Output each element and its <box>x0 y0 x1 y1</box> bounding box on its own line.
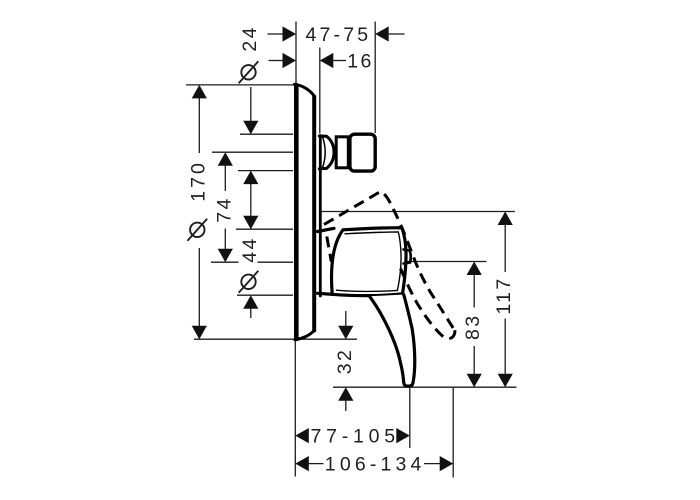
wire extension line top knob-end x375 <box>374 22 376 134</box>
svg-text:32: 32 <box>334 348 356 375</box>
wire extension line left y170 knob bottom <box>238 170 293 172</box>
wire baseline y387 lever bottom <box>333 386 517 388</box>
arrowhead 16 right (points left at x320) <box>320 53 334 68</box>
wire extension line left y295 sleeve bottom <box>237 294 293 296</box>
svg-text:47-75: 47-75 <box>306 24 371 46</box>
dim 16 tails <box>269 60 283 62</box>
handle neck bottom edge <box>318 293 334 294</box>
arrowhead 117 top (points up at y211.5) <box>498 212 513 226</box>
dim 32 tails <box>345 311 347 327</box>
arrowhead 74 bottom (points down at y262) <box>218 249 233 263</box>
arrowhead D170 top (points up at y85) <box>192 85 207 99</box>
svg-text:77-105: 77-105 <box>311 426 398 448</box>
wire extension line left y262 handle axis part2 <box>258 261 294 263</box>
escutcheon plate front edge <box>312 97 316 331</box>
wire extension line left y229 sleeve top <box>236 228 293 230</box>
dashed handle raised position lower outline with tip curl <box>401 269 455 339</box>
svg-text:74: 74 <box>213 196 235 223</box>
label D170 diameter symbol <box>188 219 208 241</box>
arrowhead D170 bottom (points down at y339) <box>192 326 207 340</box>
wire extension line bottom right x453 <box>452 388 454 478</box>
wire extension line bottom left x295 <box>294 341 296 477</box>
arrowhead 47-75 right (points left at x375) <box>375 26 389 41</box>
arrowhead 83 bottom (points down at y387) <box>467 374 482 388</box>
handle body inner detail line <box>337 232 402 291</box>
dim 117 line segments <box>504 224 506 272</box>
wire extension line bottom x410 lever tip <box>409 388 411 448</box>
wire extension line left y134 knob top <box>240 133 293 135</box>
knob neck spool outline <box>319 136 334 169</box>
arrowhead D24 top (points down at y134) <box>243 121 258 135</box>
arrowhead 74 top (points up at y152) <box>218 152 233 166</box>
arrowhead 16 left (points right at x296) <box>283 53 297 68</box>
svg-text:117: 117 <box>493 276 515 314</box>
arrowhead D24 bottom (points up at y170.6) <box>243 171 258 185</box>
dim 74 line segments <box>224 165 226 192</box>
dashed handle neck edge <box>327 237 332 262</box>
wire extension line right y211 handle top level <box>320 211 516 213</box>
arrowhead 32 top (points down at y339) <box>338 326 353 340</box>
wire extension line right y261 handle axis <box>402 261 487 263</box>
arrowhead 117 bottom (points down at y387) <box>498 374 513 388</box>
handle body outline <box>331 228 406 296</box>
escutcheon plate top curve <box>295 84 315 96</box>
wire extension line left y262 handle axis part1 <box>211 261 239 263</box>
arrowhead D44 bottom (points up at y295) <box>243 295 258 309</box>
arrowhead 83 top (points up at y261.5) <box>467 262 482 276</box>
svg-text:24: 24 <box>239 25 261 52</box>
svg-text:16: 16 <box>347 51 374 73</box>
arrowhead 106-134 left (points left at x295) <box>295 456 309 471</box>
dim 83 line segments <box>473 275 475 308</box>
dim 47-75 tails <box>268 33 283 35</box>
wire extension line left y152 knob axis <box>212 151 293 153</box>
svg-text:83: 83 <box>462 313 484 340</box>
dim D24 tail from text to arrow <box>250 87 252 122</box>
arrowhead 106-134 right (points right at x453) <box>440 456 454 471</box>
arrowhead 77-105 right (points right at x410) <box>396 428 410 443</box>
knob ring section <box>336 137 348 168</box>
escutcheon plate back edge <box>294 85 299 339</box>
dashed handle raised position upper outline <box>324 192 454 329</box>
arrowhead 77-105 left (points left at x295) <box>295 428 309 443</box>
wire extension line top sleeve x320 <box>319 48 321 134</box>
arrowhead D44 top (points down at y229) <box>243 216 258 230</box>
wire extension line y339 plate bottom <box>194 338 357 340</box>
dim D24/D44 shared tail between arrows <box>250 183 252 217</box>
valve sleeve edge line <box>319 136 322 297</box>
wire extension line left y85 plate top <box>186 84 294 86</box>
dim 106-134 tails <box>308 463 323 465</box>
diverter button on handle <box>404 250 411 264</box>
arrowhead 47-75 left (points right at x296) <box>283 26 297 41</box>
knob cap <box>350 134 375 171</box>
dim D44 bottom tail <box>250 308 252 319</box>
escutcheon plate bottom curve <box>295 331 314 340</box>
handle neck top edge <box>318 228 335 231</box>
dim D170 line segments <box>198 97 200 153</box>
knob neck inner arc <box>323 138 325 168</box>
svg-text:44: 44 <box>239 236 261 263</box>
arrowhead 32 bottom (points up at y387) <box>338 387 353 401</box>
lever arm <box>370 295 415 387</box>
label D44 diameter symbol <box>239 271 259 293</box>
wire extension line top back-of-plate x296 <box>295 22 297 84</box>
svg-text:170: 170 <box>187 161 209 202</box>
label D24 diameter symbol <box>239 61 259 83</box>
